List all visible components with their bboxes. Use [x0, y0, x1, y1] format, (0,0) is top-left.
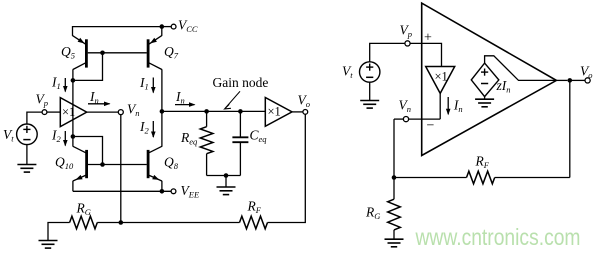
wire diamond to output	[485, 56, 557, 81]
svg-text:RF: RF	[247, 199, 262, 216]
node R_eq top	[204, 109, 209, 114]
wire V_n drop to feedback node	[393, 119, 395, 177]
wire Q7 collector to gain node	[161, 69, 163, 111]
op-amp input buffer x1 left	[60, 98, 86, 127]
wire Q10 collector	[72, 137, 74, 147]
svg-text:Vo: Vo	[580, 64, 593, 81]
svg-text:Vt: Vt	[342, 64, 353, 81]
transistor Q5	[85, 39, 88, 67]
svg-text:×1: ×1	[435, 70, 448, 84]
wire buffer supply rail	[72, 80, 74, 136]
wire buffer to V_o	[292, 111, 303, 113]
svg-text:RF: RF	[475, 154, 490, 171]
svg-text:Vp: Vp	[400, 23, 413, 40]
source Vt left	[17, 124, 38, 145]
wire Q10 emitter to VEE rail	[72, 181, 74, 192]
svg-text:I2: I2	[51, 128, 62, 145]
arrow I2 left	[64, 131, 66, 146]
source Vt right	[360, 62, 380, 82]
node ground tie	[224, 173, 229, 178]
wire buffer output to V_n	[87, 111, 119, 113]
terminal V_o right	[585, 78, 590, 83]
svg-text:×1: ×1	[62, 105, 75, 119]
wire to VCC terminal	[162, 26, 171, 28]
svg-text:In: In	[453, 98, 463, 115]
wire VCC top rail	[73, 26, 162, 28]
svg-text:Vn: Vn	[127, 102, 140, 119]
node feedback junction left	[119, 220, 124, 225]
svg-text:VCC: VCC	[178, 18, 198, 35]
wire gain node rail	[162, 110, 265, 112]
wire Q5 collector-base tie	[72, 69, 74, 80]
wire Q10-Q8 base	[88, 164, 147, 166]
wire Q5-Q7 base	[88, 52, 147, 54]
svg-text:Vn: Vn	[399, 98, 412, 115]
capacitor C_eq	[239, 111, 241, 137]
ground under Vt left	[17, 164, 36, 166]
wire node to R_F right	[394, 177, 467, 179]
input buffer x1 right (pointing down)	[426, 67, 455, 94]
terminal V_p left	[42, 110, 47, 115]
wire node to R_F	[121, 222, 240, 224]
node VEE junction	[160, 189, 165, 194]
wire Q8 emitter to VEE rail	[161, 181, 163, 192]
svg-text:zIn: zIn	[496, 78, 511, 95]
svg-text:Vp: Vp	[36, 92, 49, 109]
svg-text:I2: I2	[139, 119, 150, 136]
svg-text:Q8: Q8	[164, 155, 179, 172]
node C_eq top	[238, 109, 243, 114]
wire Vt to ground	[26, 145, 28, 165]
svg-text:Ceq: Ceq	[250, 128, 268, 145]
resistor R_G right	[393, 178, 395, 200]
svg-text:−: −	[427, 119, 435, 134]
node VCC junction	[160, 24, 165, 29]
controlled source zIn diamond	[471, 63, 499, 97]
wire V_p into op-amp	[410, 43, 441, 66]
terminal V_n right	[403, 117, 408, 122]
node Q10 tie	[71, 134, 76, 139]
svg-text:Vt: Vt	[3, 127, 14, 144]
op-amp output buffer x1 left	[265, 98, 292, 127]
wire V_n rail	[409, 118, 441, 120]
ground under R_G left	[39, 240, 58, 242]
op-amp body (CFA macromodel)	[422, 3, 557, 155]
wire Vt to V_p right	[370, 43, 405, 61]
svg-text:In: In	[175, 89, 185, 106]
wire ground to R_G	[48, 223, 70, 241]
svg-text:RG: RG	[365, 205, 380, 222]
svg-text:www.cntronics.com: www.cntronics.com	[415, 224, 581, 250]
terminal V_p right	[405, 41, 410, 46]
terminal VEE	[171, 189, 176, 194]
node base tie top	[100, 51, 105, 56]
wire Vt to V_p	[27, 112, 42, 124]
wire Vt to ground right	[369, 82, 371, 100]
wire Q8 collector rail	[161, 111, 163, 146]
svg-text:Q7: Q7	[164, 44, 179, 61]
svg-text:+: +	[424, 31, 432, 46]
resistor R_F right	[467, 171, 495, 184]
wire to V_o terminal right	[570, 79, 585, 81]
svg-text:×1: ×1	[268, 105, 281, 119]
node output junction	[568, 78, 573, 83]
arrow gain node pointer	[225, 91, 240, 108]
resistor R_F left	[240, 216, 268, 229]
arrow I_n left	[88, 103, 110, 105]
transistor Q8	[147, 150, 150, 178]
wire Req-Ceq bottom	[207, 175, 241, 177]
resistor R_eq	[206, 111, 208, 126]
arrow I2 middle	[152, 121, 154, 137]
transistor Q10	[85, 150, 88, 178]
wire R_F row right	[495, 177, 570, 179]
svg-text:Q5: Q5	[61, 44, 75, 61]
ground under R_G right	[385, 238, 404, 240]
wire R_G to node	[97, 222, 121, 224]
svg-text:Gain node: Gain node	[213, 75, 269, 90]
arrow I1 middle	[152, 78, 154, 93]
ground under diamond	[484, 97, 486, 100]
svg-text:VEE: VEE	[181, 183, 200, 200]
svg-text:I1: I1	[51, 75, 61, 92]
terminal V_n left	[118, 110, 123, 115]
wire buffer apex to V_n rail	[439, 93, 441, 119]
svg-text:Vo: Vo	[298, 93, 311, 110]
wire tie to base	[73, 53, 103, 81]
wire V_p to buffer	[47, 111, 60, 113]
ground under Req/Ceq	[225, 176, 227, 188]
arrow I_n middle	[175, 104, 195, 106]
wire feedback drop right	[569, 80, 571, 177]
ground under Vt right	[360, 100, 379, 102]
wire R_F to V_o drop	[268, 114, 306, 222]
arrow I_n right	[447, 97, 449, 114]
terminal VCC	[171, 24, 176, 29]
arrow I1 left	[64, 78, 66, 92]
terminal V_o left	[303, 110, 308, 115]
node base tie bottom	[100, 162, 105, 167]
svg-text:Req: Req	[180, 130, 198, 147]
wire V_n feedback drop	[120, 115, 122, 223]
svg-text:I1: I1	[139, 75, 149, 92]
svg-text:Q10: Q10	[55, 155, 74, 172]
svg-text:In: In	[89, 89, 99, 106]
wire VEE rail	[73, 190, 171, 192]
transistor Q7	[147, 39, 150, 67]
wire Q10 tie to base	[73, 137, 103, 165]
wire op-amp output	[556, 79, 567, 81]
node gain node left	[160, 109, 165, 114]
node feedback junction right	[392, 175, 397, 180]
node Q5 tie	[71, 78, 76, 83]
resistor R_G left	[70, 216, 98, 229]
svg-text:RG: RG	[76, 201, 91, 218]
